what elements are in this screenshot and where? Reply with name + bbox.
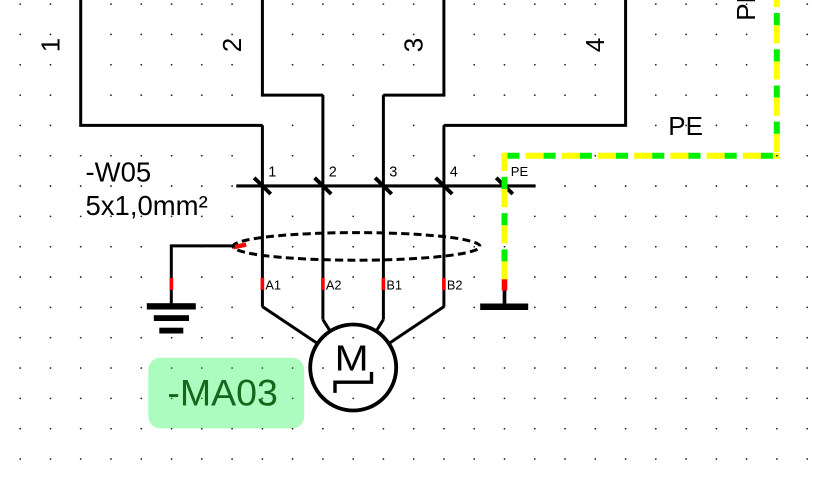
svg-text:A1: A1 <box>265 277 281 292</box>
svg-text:B2: B2 <box>447 277 463 292</box>
wire PE earth stub <box>503 291 507 304</box>
cable slash conductor 2 <box>315 178 332 194</box>
cable -W05 line <box>236 184 535 187</box>
svg-text:5x1,0mm²: 5x1,0mm² <box>86 190 208 221</box>
svg-text:3: 3 <box>389 165 397 181</box>
shield connection red tick <box>233 245 246 248</box>
conductor wire 1 drop <box>261 125 264 306</box>
connection red tick PE earth <box>502 279 508 290</box>
svg-text:B1: B1 <box>386 277 402 292</box>
svg-text:PE: PE <box>668 111 703 141</box>
svg-text:PE: PE <box>511 164 529 179</box>
svg-text:A2: A2 <box>326 277 342 292</box>
cable slash conductor 4 <box>436 178 453 194</box>
svg-text:1: 1 <box>35 38 65 52</box>
motor step symbol <box>335 372 372 393</box>
wire A1 to motor <box>262 307 317 344</box>
connection red tick B2 <box>442 278 446 290</box>
connection red tick B1 <box>382 278 386 290</box>
connection red tick shield earth <box>170 278 174 290</box>
conductor wire 2 drop <box>321 95 324 320</box>
wire B1 to motor <box>376 320 383 332</box>
wire 4 top run <box>444 0 626 125</box>
wire 3 top run <box>383 0 444 95</box>
wire PE green-yellow horizontal <box>501 153 779 159</box>
connection red tick A2 <box>321 278 325 290</box>
svg-text:PE: PE <box>731 0 761 21</box>
wire PE green-yellow drop to earth <box>502 153 508 280</box>
wire 1 top run <box>81 0 263 125</box>
svg-text:1: 1 <box>268 165 276 181</box>
wire A2 to motor <box>323 320 330 332</box>
device highlight box -MA03 <box>148 358 304 429</box>
wire shield to earth <box>171 246 235 304</box>
cable slash conductor PE <box>496 178 513 194</box>
conductor wire 4 drop <box>442 125 445 306</box>
svg-text:-MA03: -MA03 <box>167 371 277 413</box>
earth terminal bar PE <box>480 304 528 311</box>
cable slash conductor 3 <box>375 178 392 194</box>
cable slash conductor 1 <box>254 178 271 194</box>
connection red tick A1 <box>261 278 265 290</box>
svg-text:4: 4 <box>450 165 458 181</box>
svg-text:2: 2 <box>217 38 247 52</box>
svg-text:3: 3 <box>398 38 428 52</box>
wire B2 to motor <box>389 307 444 344</box>
cable shield ellipse <box>233 233 480 261</box>
wire PE green-yellow vertical right <box>774 0 780 156</box>
wire 2 top run <box>262 0 323 95</box>
svg-text:M: M <box>335 338 369 379</box>
svg-text:2: 2 <box>329 165 337 181</box>
svg-text:4: 4 <box>580 38 610 52</box>
conductor wire 3 drop <box>382 95 385 320</box>
motor M1 circle <box>310 325 396 411</box>
ground symbol earth <box>147 303 196 333</box>
svg-text:-W05: -W05 <box>86 157 152 188</box>
